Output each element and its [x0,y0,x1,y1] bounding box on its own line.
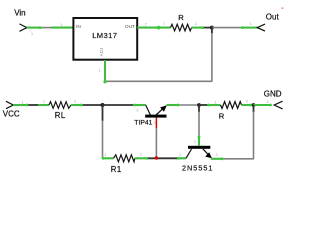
pin 2 of R1 [135,157,147,159]
svg-text:3: 3 [216,153,218,157]
resistor R (bottom) [221,102,242,109]
pin 1 of RL [38,104,49,106]
transistor Q1 TIP41 [134,105,167,126]
wire R1 to Q2 collector [147,157,179,159]
pin 2 of R bottom [242,104,251,106]
svg-text:2: 2 [145,22,147,26]
svg-text:1: 1 [99,68,101,72]
svg-text:2: 2 [194,140,196,144]
svg-text:R1: R1 [111,165,122,174]
svg-text:Vin: Vin [14,9,25,18]
svg-text:2: 2 [74,100,76,104]
pin OUT of U1 [137,27,170,29]
node C junction [197,103,201,107]
voltage regulator U1 LM317 body [73,18,137,60]
pin C of Q2 [179,157,187,159]
svg-text:1: 1 [267,100,269,104]
transistor Q2 2N5551 [182,146,213,173]
wire node B to TIP41 collector [103,104,135,106]
pin 1 of Vin connector [27,27,41,29]
wire node A down [211,28,213,34]
svg-text:1: 1 [22,100,24,104]
wire feedback horizontal [105,80,212,82]
pin ADJ of U1 [104,60,106,82]
node E junction red [155,156,158,159]
wire VCC to RL [27,104,38,106]
svg-text:RL: RL [55,111,66,120]
svg-text:R: R [219,112,225,121]
port GND connector [274,101,282,109]
pin 1 of VCC connector [13,104,27,106]
svg-text:VCC: VCC [3,109,20,118]
wire R to node [203,27,212,29]
wire node to Out [212,27,243,29]
pin IN of U1 [51,27,73,29]
wire Vin to LM317 [40,27,51,29]
svg-text:ADJ: ADJ [99,48,104,57]
pin 2 of RL [71,104,83,106]
pin C of Q1 [134,104,146,106]
wire R to node D [251,104,254,106]
pin 1 of R bottom [209,104,221,106]
pin E of Q1 [167,104,179,106]
wire RL to node B [83,104,103,106]
wire node B down [102,105,104,121]
wire Q1 base down [155,128,157,157]
pin end dots [26,26,272,161]
pin B of Q1 (red) [155,118,157,129]
svg-text:TIP41: TIP41 [134,119,152,126]
wire Q2 emitter to node D [222,158,254,160]
resistor R (top) [171,24,192,31]
svg-text:1: 1 [105,153,107,157]
svg-text:2: 2 [246,100,248,104]
wire node D down [253,105,255,112]
svg-text:Out: Out [266,13,280,22]
svg-text:2N5551: 2N5551 [182,163,213,172]
svg-text:IN: IN [76,24,81,30]
pin B of Q2 [198,137,200,146]
wire node C down to Q2 base [198,105,200,112]
svg-text:1: 1 [31,32,33,36]
port Out connector [257,24,265,31]
port VCC connector [6,101,13,108]
svg-text:2: 2 [140,153,142,157]
svg-text:OUT: OUT [125,24,135,30]
svg-text:2: 2 [137,109,139,113]
node D junction [252,103,256,107]
pin E of Q2 [211,158,222,160]
svg-text:1: 1 [179,153,181,157]
pin 1 of Out connector [243,27,258,29]
svg-text:1: 1 [163,22,165,26]
svg-text:R: R [178,13,184,22]
svg-text:GND: GND [264,90,282,99]
svg-text:1: 1 [154,121,156,125]
resistor RL [49,102,71,109]
pin 1 of R1 [103,157,114,159]
port Vin connector [20,24,27,31]
wire Q1 emitter to node C [178,104,199,106]
svg-text:1: 1 [250,22,252,26]
stray pink mark [281,8,283,9]
svg-text:1: 1 [60,23,62,27]
node B junction [101,103,105,107]
svg-text:1: 1 [215,100,217,104]
pin 1 of GND connector [254,104,271,106]
resistor R1 [114,155,135,162]
node A junction [210,26,214,30]
wire node C to R [199,104,209,106]
svg-text:1: 1 [43,100,45,104]
svg-text:LM317: LM317 [92,31,117,40]
pin 2 of R [192,27,203,29]
svg-text:2: 2 [195,22,197,26]
